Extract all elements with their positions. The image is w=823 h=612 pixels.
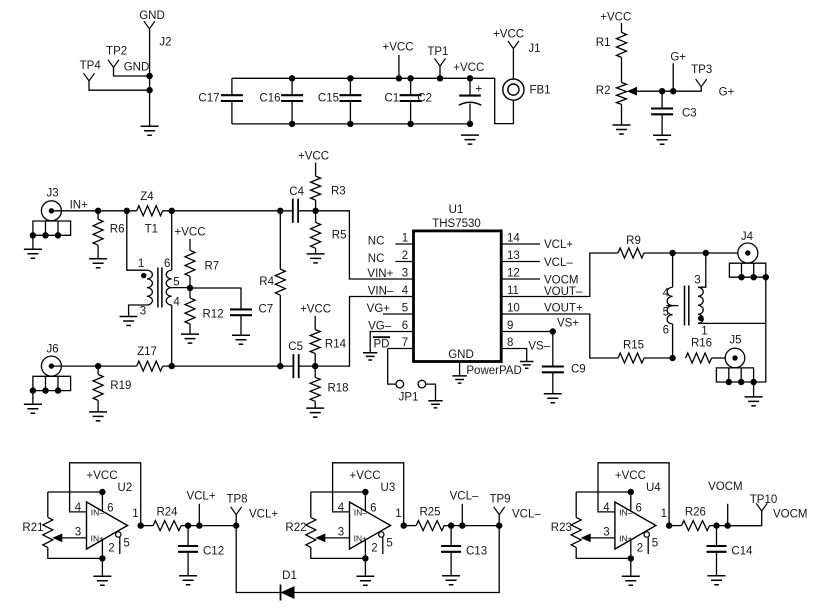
ground under R18	[306, 408, 324, 417]
pin 1 of T2	[701, 325, 707, 337]
pin 1 of U2	[132, 508, 138, 520]
junction C15 top	[347, 75, 353, 81]
junction C2 bottom	[467, 121, 473, 127]
resistor R14	[310, 330, 320, 354]
wire R9 to J4	[644, 252, 738, 254]
ground under U3	[356, 576, 374, 585]
label Z4	[140, 191, 154, 203]
resistor R16	[686, 353, 712, 363]
label FB1	[529, 85, 550, 97]
svg-text:2: 2	[637, 542, 643, 554]
junction TP2/J2	[146, 73, 152, 79]
label +VCC over R14	[300, 304, 331, 316]
pin 7 stub of U1 (PD)	[388, 348, 414, 350]
wire R18 to ground	[314, 401, 316, 408]
label GND at TP2	[124, 61, 150, 73]
connector J5 shield	[716, 368, 756, 385]
pin 3 of U4	[603, 527, 609, 539]
wire R4 bottom lead	[279, 295, 281, 366]
junction VCL&#8211; riser	[459, 522, 465, 528]
svg-text:C12: C12	[203, 546, 224, 558]
winding T2 primary	[667, 287, 673, 324]
wire VIN- to U1 pin 4	[315, 297, 413, 367]
svg-text:12: 12	[507, 267, 520, 279]
wire node to R18	[314, 366, 316, 377]
wire R19 top	[97, 366, 99, 374]
wire C13 top lead	[450, 526, 452, 546]
label C3	[682, 108, 697, 120]
svg-text:NC: NC	[368, 236, 385, 248]
svg-text:U2: U2	[118, 482, 133, 494]
pin 3 of T1	[140, 306, 146, 318]
wire +VCC to R7	[189, 239, 191, 250]
svg-text:R24: R24	[156, 507, 178, 519]
junction TP4/J2	[146, 87, 152, 93]
label IN- of U4	[619, 507, 633, 517]
label VCL&#8211; at TP9	[512, 509, 541, 521]
wire VCL+ riser	[198, 504, 200, 526]
junction C16 top	[289, 75, 295, 81]
winding T1 primary	[147, 270, 153, 305]
label +VCC over R1	[600, 11, 631, 23]
svg-text:3: 3	[75, 527, 81, 539]
svg-text:JP1: JP1	[399, 392, 419, 404]
svg-text:4: 4	[75, 502, 82, 514]
wire R15 to T2	[644, 357, 673, 359]
wire R2 wiper to G+ node	[637, 87, 702, 91]
label R6	[110, 224, 125, 236]
ground under C7	[232, 335, 250, 344]
label TP8	[226, 494, 247, 506]
svg-text:GND: GND	[448, 349, 474, 361]
svg-text:R12: R12	[203, 309, 224, 321]
label VCL+ at TP8	[249, 509, 278, 521]
wire R6 to ground	[97, 245, 99, 259]
svg-text:+VCC: +VCC	[87, 470, 118, 482]
resistor R24	[153, 521, 181, 531]
svg-text:6: 6	[402, 320, 408, 332]
svg-text:R4: R4	[259, 276, 274, 288]
pin 1 of U3	[395, 508, 401, 520]
wire +VCC to R3	[315, 163, 317, 177]
wire R12 to ground	[189, 324, 191, 334]
svg-text:5: 5	[173, 276, 179, 288]
pin name VOUT+	[544, 302, 583, 314]
test point TP9	[494, 507, 505, 515]
svg-text:R14: R14	[325, 339, 347, 351]
svg-text:3: 3	[603, 527, 609, 539]
connector J3	[41, 201, 61, 221]
svg-text:+VCC: +VCC	[600, 11, 631, 23]
svg-text:C1: C1	[384, 93, 399, 105]
pin 5 of U3	[386, 537, 392, 549]
label C4	[289, 186, 304, 198]
label TP3	[691, 64, 712, 76]
label R26	[685, 507, 706, 519]
resistor Z4	[137, 206, 163, 216]
svg-text:4: 4	[338, 502, 345, 514]
ground under C14	[708, 576, 726, 585]
svg-text:C17: C17	[198, 93, 219, 105]
label +VCC over C1	[383, 42, 414, 54]
wire R5 to ground	[315, 248, 317, 254]
svg-text:TP8: TP8	[226, 494, 247, 506]
connector J3 shield	[30, 221, 71, 239]
pin 5 of U2	[123, 537, 129, 549]
label +VCC of U2	[87, 470, 118, 482]
test point TP4	[84, 73, 95, 81]
label VOCM riser	[708, 481, 743, 493]
svg-text:U3: U3	[381, 482, 396, 494]
svg-text:VCL+: VCL+	[249, 509, 278, 521]
label J3	[47, 188, 59, 200]
wire C12 top lead	[187, 526, 189, 546]
wire VOCM riser	[727, 504, 729, 526]
wire T2 pin 6 down	[672, 324, 674, 358]
wire C12 to ground	[187, 552, 189, 576]
svg-text:R1: R1	[596, 37, 611, 49]
pin name VG-	[368, 321, 392, 333]
pin 6 of U2	[107, 503, 113, 515]
label IN+ of U2	[91, 533, 105, 543]
svg-text:6: 6	[107, 503, 113, 515]
label C12	[203, 546, 224, 558]
svg-text:C16: C16	[259, 93, 280, 105]
svg-text:7: 7	[402, 337, 408, 349]
svg-text:+VCC: +VCC	[298, 150, 329, 162]
pin number 6 of U1	[402, 320, 408, 332]
wire Z17 node to C5	[163, 365, 294, 367]
svg-text:4: 4	[603, 502, 610, 514]
junction T2 pin4	[669, 250, 675, 256]
pin name GND of U1	[448, 349, 474, 361]
junction R4 bottom	[277, 363, 283, 369]
pin 1 of U4	[661, 508, 667, 520]
winding T2 secondary	[698, 287, 703, 323]
pin 5 bubble of U2	[116, 532, 121, 537]
svg-text:TP3: TP3	[691, 64, 712, 76]
svg-text:R26: R26	[685, 507, 706, 519]
pin number 10 of U1	[507, 302, 520, 314]
wire +VCC to R1	[621, 23, 623, 32]
wire Z4 node to C4	[163, 210, 293, 212]
svg-text:2: 2	[108, 542, 114, 554]
pin name VIN-	[368, 286, 394, 298]
label Z17	[137, 346, 157, 358]
svg-text:J4: J4	[741, 231, 754, 243]
pin 2 of U3	[371, 542, 377, 554]
wire R6 top	[97, 211, 99, 219]
connector J4	[738, 243, 758, 263]
label R14	[325, 339, 347, 351]
wire R21 top	[48, 492, 103, 517]
svg-text:J2: J2	[159, 36, 171, 48]
svg-text:TP4: TP4	[80, 60, 102, 72]
junction R14/R18	[312, 363, 318, 369]
wire R26 to nodes	[710, 525, 762, 527]
pin 2 stub of U1	[396, 261, 414, 263]
svg-text:G+: G+	[670, 52, 686, 64]
svg-text:5: 5	[652, 537, 658, 549]
wire C7 to ground	[240, 315, 242, 335]
pin 4 of T1	[173, 296, 180, 308]
label G+ over riser	[670, 52, 686, 64]
wire J3 shield to ground	[32, 235, 34, 249]
svg-text:VCL–: VCL–	[544, 257, 573, 269]
ground under R2	[613, 125, 631, 134]
svg-text:VCL+: VCL+	[544, 239, 573, 251]
junction +VCC of U4	[628, 489, 634, 495]
wire to TP10	[728, 511, 762, 526]
wire VOUT- to R9	[501, 253, 618, 297]
svg-text:6: 6	[370, 503, 376, 515]
ground at VG-	[363, 353, 377, 360]
connector J4 shield	[729, 263, 769, 280]
svg-text:THS7530: THS7530	[432, 218, 481, 230]
svg-text:J5: J5	[729, 334, 741, 346]
label +VCC of U4	[615, 470, 646, 482]
pin 2 of U2	[108, 542, 114, 554]
core of T2	[685, 286, 689, 326]
ground under R6	[89, 259, 107, 268]
svg-text:C2: C2	[417, 93, 432, 105]
junction T1 pin4 node	[169, 363, 175, 369]
svg-text:5: 5	[663, 307, 669, 319]
pin 5 of U4	[652, 537, 658, 549]
svg-text:1: 1	[402, 232, 408, 244]
svg-text:R19: R19	[110, 380, 131, 392]
label PowerPAD	[466, 365, 521, 377]
ground at JP1	[428, 401, 442, 408]
capacitor C7	[230, 309, 252, 315]
svg-text:R9: R9	[626, 235, 641, 247]
label C15	[318, 93, 339, 105]
svg-text:R18: R18	[327, 383, 348, 395]
resistor R7	[185, 250, 195, 276]
label VOCM at TP10	[773, 509, 808, 521]
wire R21 bottom	[48, 547, 103, 558]
wire C14 top lead	[716, 526, 718, 546]
pin 6 of T1	[164, 258, 170, 270]
pin 6 of U3	[370, 503, 376, 515]
wire +VCC top rail	[232, 77, 470, 79]
capacitor C16	[281, 78, 303, 124]
svg-text:+VCC: +VCC	[383, 42, 414, 54]
label C17	[198, 93, 219, 105]
wire ground bottom rail	[232, 123, 470, 125]
capacitor C4	[293, 199, 298, 223]
junction pin2/R22	[362, 555, 368, 561]
pin 12 stub of U1	[501, 278, 540, 280]
svg-text:2: 2	[402, 250, 408, 262]
svg-text:J1: J1	[528, 43, 540, 55]
junction T2 pin3	[703, 250, 709, 256]
label G+ right	[719, 86, 735, 98]
svg-text:G+: G+	[719, 86, 735, 98]
wire VOUT+ to R15	[501, 314, 618, 358]
pin number 5 of U1	[402, 302, 408, 314]
label THS7530	[432, 218, 481, 230]
label R3	[331, 186, 346, 198]
wire T2 pin 1	[698, 322, 766, 324]
op-amp U2	[87, 502, 128, 549]
wire T1 pin 5 tap	[172, 287, 190, 289]
svg-text:4: 4	[173, 296, 180, 308]
svg-text:3: 3	[338, 527, 344, 539]
connector J6 shield	[30, 376, 71, 394]
svg-text:R22: R22	[285, 522, 306, 534]
resistor R3	[311, 176, 321, 200]
junction pin2/R21	[99, 555, 105, 561]
pin 5 stub of U3	[382, 537, 384, 554]
svg-text:D1: D1	[282, 570, 297, 582]
svg-text:8: 8	[507, 337, 513, 349]
wire VS- to ground	[501, 349, 527, 362]
svg-text:PowerPAD: PowerPAD	[466, 365, 521, 377]
label IN+ of U4	[619, 533, 633, 543]
label C9	[571, 364, 586, 376]
label R5	[332, 230, 347, 242]
wire output of U2	[141, 525, 153, 527]
pin 6 of U4	[635, 503, 641, 515]
ground under C2	[461, 135, 479, 144]
svg-text:C3: C3	[682, 108, 697, 120]
junction pin2/R23	[628, 555, 634, 561]
label TP9	[489, 494, 510, 506]
wire to C3	[661, 91, 663, 108]
svg-text:4: 4	[402, 285, 409, 297]
svg-text:R15: R15	[623, 340, 644, 352]
pin 2 of U4	[637, 542, 643, 554]
label T1	[145, 224, 158, 236]
svg-text:1: 1	[395, 508, 401, 520]
junction C3 branch	[659, 88, 665, 94]
svg-text:C9: C9	[571, 364, 586, 376]
capacitor C9	[542, 367, 564, 373]
resistor R26	[682, 521, 710, 531]
test point TP8	[231, 507, 242, 515]
label J6	[47, 344, 59, 356]
capacitor C15	[339, 78, 361, 124]
svg-text:+VCC: +VCC	[350, 470, 381, 482]
svg-text:+VCC: +VCC	[493, 29, 524, 41]
svg-text:5: 5	[402, 302, 408, 314]
junction R3/R5	[312, 208, 318, 214]
pin number 14 of U1	[507, 232, 520, 244]
svg-text:IN+: IN+	[70, 200, 89, 212]
connector J6	[41, 356, 61, 376]
label R2	[596, 85, 611, 97]
wire J2 to ground	[149, 29, 151, 126]
svg-text:5: 5	[123, 537, 129, 549]
label +VCC of U3	[350, 470, 381, 482]
junction T2 pin6	[669, 355, 675, 361]
wiper arrow of R22	[315, 534, 325, 543]
winding T1 secondary	[166, 270, 172, 305]
ground at J5 shield	[745, 397, 763, 406]
pin number 2 of U1	[402, 250, 408, 262]
svg-text:R6: R6	[110, 224, 125, 236]
junction C1 top	[407, 75, 413, 81]
pin number 7 of U1	[402, 337, 408, 349]
junction VS+/C9	[550, 328, 556, 334]
PowerPAD pin of U1	[459, 363, 461, 376]
svg-text:C5: C5	[288, 341, 303, 353]
label R9	[626, 235, 641, 247]
label +VCC at C2	[453, 62, 484, 74]
svg-text:3: 3	[140, 306, 146, 318]
pin 4 of U4	[603, 502, 610, 514]
label +VCC over R3	[298, 150, 329, 162]
pin 5 stub of U1 (VG+)	[383, 313, 414, 315]
svg-text:+VCC: +VCC	[175, 226, 206, 238]
wire +VCC riser	[398, 55, 400, 78]
label TP10	[750, 494, 778, 506]
label C14	[731, 546, 753, 558]
wire C9 top lead	[552, 332, 554, 368]
capacitor C14	[707, 546, 727, 552]
label U2	[118, 482, 133, 494]
wire TP4 to J2 net	[89, 81, 150, 90]
label IN+	[70, 200, 89, 212]
label C13	[466, 546, 487, 558]
wire R23 top	[576, 492, 631, 517]
label IN- of U2	[91, 507, 105, 517]
ground at PowerPAD	[452, 376, 466, 383]
svg-text:R3: R3	[331, 186, 346, 198]
label IN- of U3	[354, 507, 368, 517]
resistor Z17	[137, 361, 163, 371]
pin 5 stub of U2	[119, 537, 121, 554]
label R25	[419, 507, 440, 519]
resistor R21 (potentiometer)	[43, 517, 53, 547]
junction output of U2	[138, 522, 144, 528]
wire +VCC to R14	[314, 316, 316, 330]
label U3	[381, 482, 396, 494]
pin 4 of U2	[75, 502, 82, 514]
junction TP1	[437, 75, 443, 81]
pin number 1 of U1	[402, 232, 408, 244]
junction T1 tap node	[187, 285, 193, 291]
test point J2 (GND)	[144, 21, 155, 29]
ground under R12	[181, 334, 199, 343]
pin number 13 of U1	[507, 250, 520, 262]
wire R3 to node	[315, 200, 317, 211]
wire T1 pin 3	[129, 305, 147, 317]
pin 13 stub of U1	[501, 261, 540, 263]
svg-text:9: 9	[507, 320, 513, 332]
label TP2	[106, 45, 127, 57]
ground under R5	[307, 254, 325, 263]
test point TP1	[435, 58, 446, 66]
svg-text:C4: C4	[289, 186, 304, 198]
resistor R19	[93, 374, 103, 400]
svg-text:VS–: VS–	[528, 341, 550, 353]
wire output of U3	[404, 525, 416, 527]
junction VCL+ riser	[196, 522, 202, 528]
svg-text:VOCM: VOCM	[773, 509, 808, 521]
label C16	[259, 93, 280, 105]
label VCL&#8211; riser	[450, 491, 479, 503]
label D1	[282, 570, 297, 582]
ground under C3	[653, 135, 671, 144]
junction C16 bottom	[289, 121, 295, 127]
svg-text:J3: J3	[47, 188, 59, 200]
svg-text:C14: C14	[731, 546, 753, 558]
svg-text:1: 1	[138, 258, 144, 270]
resistor R15	[618, 353, 644, 363]
core of T1	[158, 268, 162, 308]
